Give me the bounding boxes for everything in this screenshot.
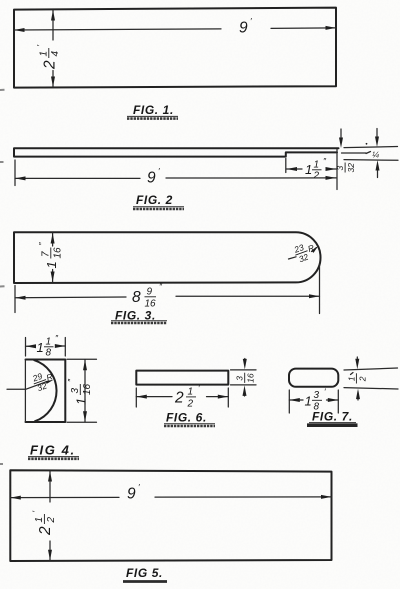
svg-text:FIG 4.: FIG 4. xyxy=(30,443,76,458)
svg-text:1: 1 xyxy=(74,398,89,405)
fig3 right extension line xyxy=(319,264,321,314)
FIG 3: round-ended piece 8-9/16 x 1-7/16 xyxy=(14,232,321,283)
fig4 left face line xyxy=(24,360,26,422)
fig2 label 1-1/2 xyxy=(305,156,327,182)
svg-text:FIG. 1.: FIG. 1. xyxy=(133,103,174,117)
fig1 label 2-1/4 (rotated) xyxy=(35,45,61,71)
fig2 left extension line xyxy=(14,160,16,186)
FIG 4: cove moulding section 1-1/8 x 1-3/16 xyxy=(26,360,66,423)
svg-text:FIG. 6.: FIG. 6. xyxy=(166,411,207,425)
fig2 arrow down 1/4 xyxy=(376,129,378,141)
svg-text:4: 4 xyxy=(50,51,61,57)
fig4 label 1-3/16 (rotated) xyxy=(66,378,93,405)
svg-text:3: 3 xyxy=(70,388,81,394)
svg-text:9: 9 xyxy=(239,20,248,37)
svg-text:1: 1 xyxy=(346,376,356,381)
FIG 5: board outline 9 x 2-1/2 xyxy=(10,470,331,561)
svg-text:FIG. 2: FIG. 2 xyxy=(136,193,173,207)
FIG 2: strip edge view with rebate xyxy=(14,148,339,156)
fig2 dimension line 9' xyxy=(15,177,336,180)
svg-text:16: 16 xyxy=(246,373,256,383)
fig6 label 3/16 (rotated) xyxy=(235,373,256,383)
fig2 middle extension line (tongue) xyxy=(342,152,367,154)
svg-text:1: 1 xyxy=(34,517,45,523)
fig4 label 1-1/8 xyxy=(37,333,60,359)
svg-text:1: 1 xyxy=(39,51,50,57)
fig6 title underline xyxy=(164,423,215,425)
fig4 vertical dimension line 1-3/16 xyxy=(84,360,86,422)
fig5 title underline xyxy=(123,580,167,583)
svg-text:16: 16 xyxy=(82,383,93,395)
FIG 6: strip 2-1/2 x 3/16 xyxy=(136,371,228,385)
fig1 title underline xyxy=(127,115,178,117)
fig4 dimension line 1-1/8 xyxy=(26,345,66,347)
svg-text:9: 9 xyxy=(147,170,156,187)
svg-text:1: 1 xyxy=(46,337,52,348)
svg-text:1: 1 xyxy=(314,160,320,171)
fig3 radius leader 23/32 R xyxy=(289,257,297,259)
svg-text:16: 16 xyxy=(53,247,64,259)
fig7 label 5/16 (rotated) xyxy=(346,373,367,383)
svg-text:FIG 5.: FIG 5. xyxy=(126,566,163,580)
FIG 1: board outline 9 x 2-1/4 xyxy=(14,8,336,88)
svg-text:8: 8 xyxy=(46,348,52,359)
svg-text:2: 2 xyxy=(46,517,57,524)
svg-text:2: 2 xyxy=(357,376,367,382)
svg-text:32: 32 xyxy=(346,163,356,173)
svg-text:2: 2 xyxy=(313,171,320,182)
fig4 concave arc xyxy=(34,360,56,421)
svg-text:2: 2 xyxy=(187,399,194,410)
fig7 bottom extension lines xyxy=(289,390,338,413)
fig6 dimension line 2-1/2 xyxy=(136,396,228,398)
svg-text:9: 9 xyxy=(127,486,136,503)
fig3 label 8-9/16 xyxy=(132,282,163,310)
fig7 arrow down 5/16 xyxy=(356,357,358,363)
fig7 right extension lines xyxy=(344,368,398,389)
fig6 right extension lines xyxy=(231,370,257,385)
fig7 arrow up 5/16 xyxy=(357,395,359,401)
fig4 radius leader 29/32 R xyxy=(7,382,47,390)
fig2 extension line at step xyxy=(285,159,287,173)
fig6 arrow up 3/16 xyxy=(244,391,246,396)
fig1 dim arrow right xyxy=(326,26,337,30)
fig2 bottom extension line right xyxy=(344,159,398,162)
fig4 top extension lines xyxy=(26,338,66,357)
fig2 title underline xyxy=(133,206,184,208)
fig5 label 2-1/2 (rotated) xyxy=(31,511,58,537)
svg-text:9: 9 xyxy=(147,287,153,298)
fig2 right extension line vertical xyxy=(336,150,338,190)
fig2 dimension line 1-1/2 xyxy=(286,168,336,170)
fig1 dim arrow up xyxy=(51,10,55,21)
fig7 label 1-3/8 xyxy=(305,387,327,413)
fig3 dimension line 8-9/16 xyxy=(15,296,320,298)
fig4 title underline xyxy=(28,456,79,458)
fig6 label 2-1/2 xyxy=(174,383,200,410)
svg-text:3: 3 xyxy=(235,376,245,381)
svg-text:¼: ¼ xyxy=(372,150,379,160)
fig2 arrow up 1/4 xyxy=(377,166,379,178)
fig1 label 9' xyxy=(239,16,252,37)
svg-text:3: 3 xyxy=(335,166,345,171)
fig2 label 1/4 xyxy=(366,152,371,154)
fig1 dim arrow down xyxy=(51,77,55,88)
svg-text:7: 7 xyxy=(41,251,52,257)
svg-text:1: 1 xyxy=(188,387,194,398)
fig7 dimension line 1-3/8 xyxy=(289,399,338,401)
svg-text:2: 2 xyxy=(37,526,54,536)
fig4 right extension lines xyxy=(67,359,97,422)
svg-text:1: 1 xyxy=(305,394,312,409)
svg-text:1: 1 xyxy=(305,162,312,177)
fig6 bottom extension lines xyxy=(136,388,228,407)
fig2 label 3/32 (rotated) xyxy=(335,163,356,173)
svg-text:2: 2 xyxy=(174,390,184,407)
svg-text:3: 3 xyxy=(314,390,320,401)
fig2 top extension line right xyxy=(344,147,398,148)
fig1 vertical dimension line 2-1/4 xyxy=(52,10,54,87)
svg-text:8: 8 xyxy=(132,289,141,306)
fig3 left extension line xyxy=(14,286,16,313)
fig5 vertical dimension line 2-1/2 xyxy=(49,471,51,560)
svg-text:1: 1 xyxy=(44,261,59,268)
svg-text:1: 1 xyxy=(37,340,44,355)
fig2 arrow down 3/32 xyxy=(340,129,342,141)
svg-text:FIG. 7.: FIG. 7. xyxy=(312,410,353,424)
fig3 title underline xyxy=(111,320,167,322)
fig5 label 9' xyxy=(127,482,140,503)
scan artifact marks on left margin xyxy=(0,90,5,464)
fig3 label 1-7/16 (rotated) xyxy=(37,242,64,269)
FIG 7: rounded strip 1-3/8 x 5/16 xyxy=(289,369,338,387)
fig5 horizontal dimension line 9' xyxy=(10,496,331,499)
fig7 title underline xyxy=(309,422,356,424)
fig2 label 9' xyxy=(147,166,160,187)
fig6 arrow down 3/16 xyxy=(244,359,246,364)
svg-text:2: 2 xyxy=(42,60,59,70)
fig1 horizontal dimension line 9' xyxy=(14,28,336,30)
fig1 dim arrow left xyxy=(14,28,25,32)
fig3 vertical dimension line 1-7/16 xyxy=(52,233,54,282)
